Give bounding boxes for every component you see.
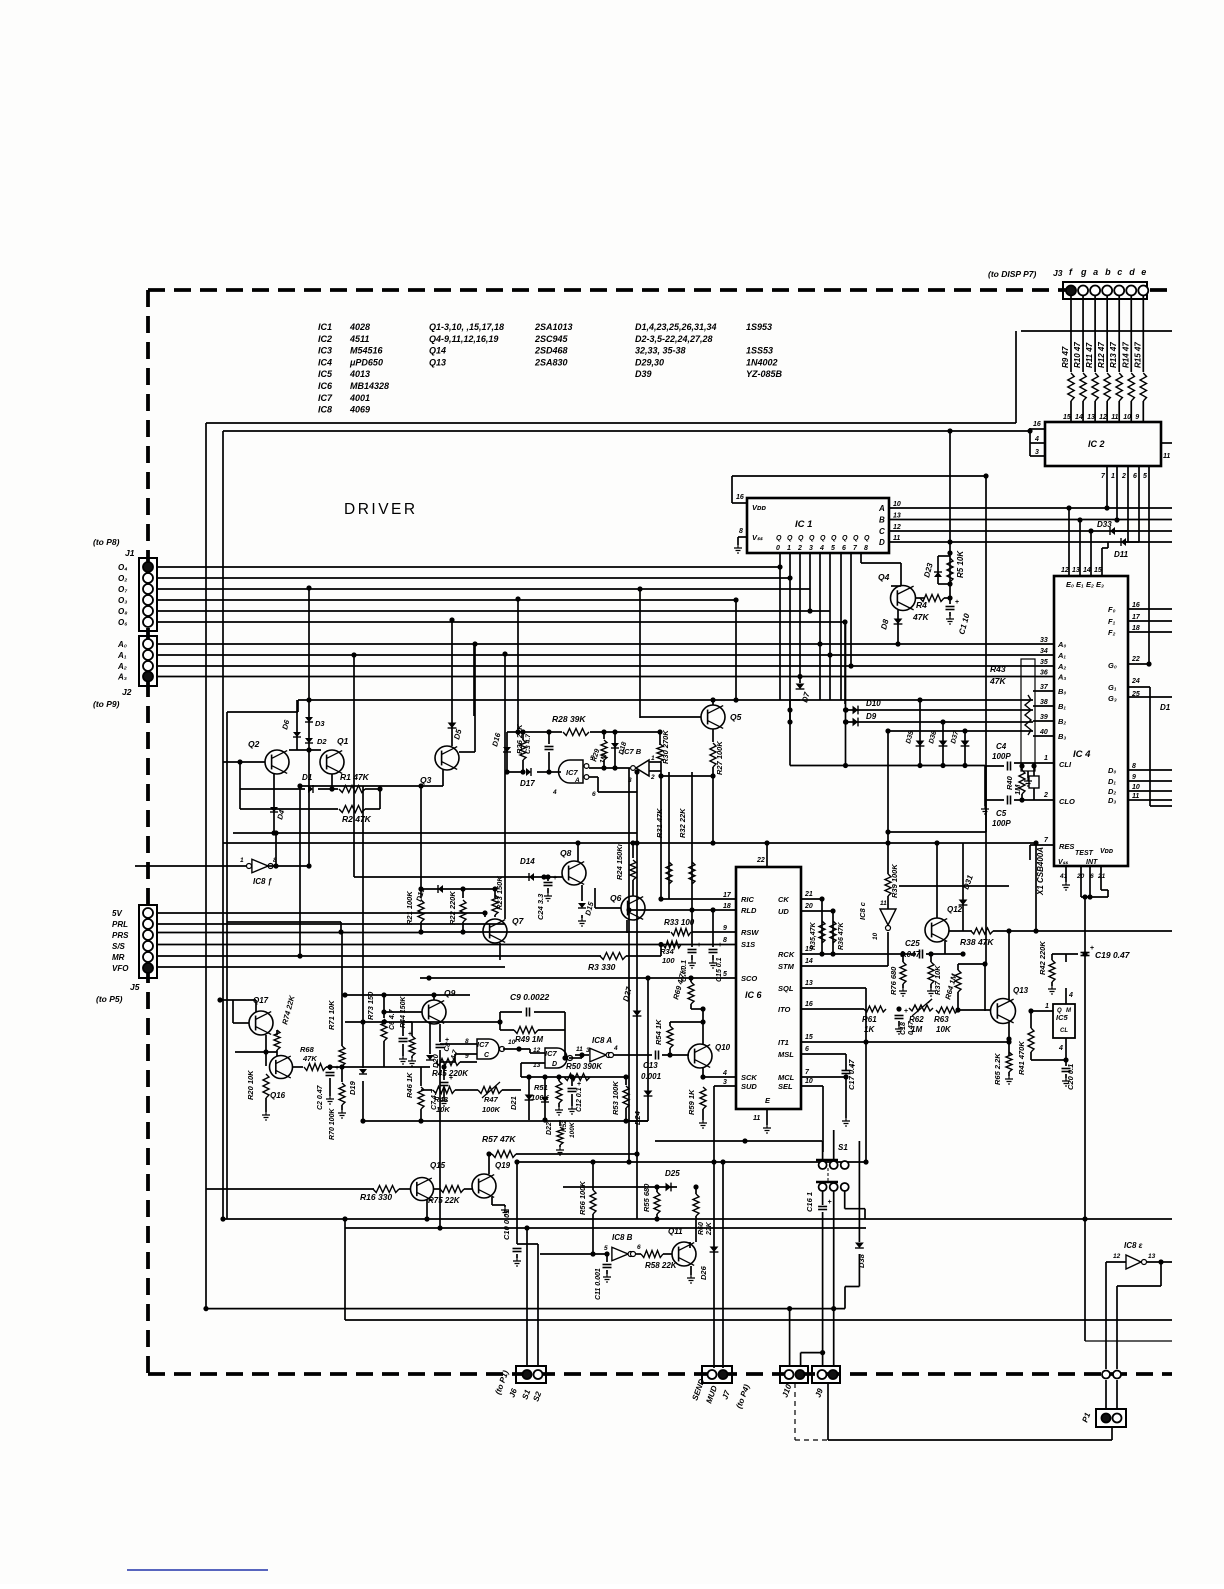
wire bus O₄ (157, 566, 780, 568)
resistor R65 2.2K (1006, 1052, 1012, 1072)
wire Q5 base left (640, 716, 701, 718)
diode D3 (308, 700, 310, 866)
resistor R53 100K (623, 1074, 628, 1079)
svg-text:R33 100: R33 100 (664, 918, 695, 927)
wire bus y703 (298, 699, 1033, 701)
svg-text:14: 14 (1075, 414, 1083, 421)
svg-text:1S953: 1S953 (746, 322, 772, 332)
wire IC1 pin Q3 down (809, 553, 811, 611)
wire x661 down to RIC (660, 776, 662, 899)
wire bus inner top (223, 430, 1030, 432)
resistor R1 47K (318, 788, 338, 790)
switch S1 top row (822, 1141, 824, 1161)
svg-text:IC7: IC7 (566, 768, 579, 777)
svg-text:J1: J1 (125, 548, 135, 558)
svg-text:A₁: A₁ (117, 651, 127, 660)
wire Q9 collector (433, 995, 435, 1000)
svg-text:IC8 ε: IC8 ε (1124, 1241, 1143, 1250)
wire bus y1320 (345, 1319, 1172, 1321)
svg-text:2SC945: 2SC945 (534, 334, 569, 344)
ground C5 (984, 800, 986, 806)
svg-text:M: M (1066, 1008, 1072, 1014)
op-amp IC6 box (736, 867, 801, 1109)
resistor R3 330 (600, 953, 626, 960)
wire diode rail y765 (790, 765, 985, 767)
svg-text:6: 6 (637, 1244, 641, 1251)
wire resistor to IC2 pin 10 (1130, 401, 1132, 422)
svg-text:16: 16 (1033, 421, 1041, 428)
svg-text:G₀: G₀ (1108, 661, 1117, 670)
capacitor C19 0.47 (1081, 952, 1090, 954)
svg-text:13: 13 (1148, 1253, 1156, 1260)
wire IC6 CK to R35 (801, 898, 822, 900)
resistor R62 1M variable (909, 1005, 933, 1011)
svg-text:J10: J10 (780, 1383, 793, 1399)
wire bus x735 vertical (735, 600, 737, 700)
svg-text:O₇: O₇ (118, 585, 128, 594)
inverter IC8E (1106, 1261, 1126, 1263)
svg-text:D₀: D₀ (1108, 766, 1116, 775)
connector J1 pin O₈ (143, 606, 153, 616)
svg-text:R71 10K: R71 10K (327, 1000, 336, 1030)
svg-text:CLO: CLO (1059, 797, 1075, 806)
svg-text:20: 20 (804, 903, 813, 910)
svg-text:B₁: B₁ (1058, 702, 1066, 711)
svg-text:4: 4 (1034, 436, 1039, 443)
wire bus MR (157, 955, 601, 957)
op-amp IC5 box (1053, 1004, 1075, 1038)
resistor R57 47K (489, 1153, 492, 1155)
svg-text:7: 7 (853, 545, 858, 552)
resistor R63 10K (936, 1007, 958, 1013)
svg-text:3: 3 (1035, 449, 1039, 456)
resistor R48 10K (421, 1089, 432, 1091)
connector J3 pin g (1078, 286, 1088, 296)
svg-text:+: + (828, 1199, 832, 1206)
svg-text:SUD: SUD (741, 1082, 757, 1091)
svg-text:(to P5): (to P5) (96, 994, 123, 1004)
svg-text:Vₛₛ: Vₛₛ (1058, 859, 1068, 866)
svg-text:13: 13 (1072, 567, 1080, 574)
svg-text:Vₛₛ: Vₛₛ (752, 533, 764, 542)
svg-text:SCK: SCK (741, 1073, 757, 1082)
wire O6 to D10 (844, 622, 846, 704)
wire y1067 segment (342, 1066, 430, 1068)
svg-text:R35,47K: R35,47K (810, 921, 817, 950)
svg-text:+: + (335, 1065, 339, 1072)
resistor R28 39K (549, 731, 562, 733)
svg-text:C4: C4 (996, 742, 1007, 751)
wire Q9 base (384, 1011, 422, 1013)
wire J9 below to P1 (827, 1383, 829, 1440)
wire IC6 ITO chain R61 C18 R62 R63 to Q13 (801, 1008, 864, 1010)
wire Q13 emitter down R65 (1008, 1022, 1010, 1056)
wire IC8E output (1147, 1261, 1172, 1263)
wire bus VFO (157, 966, 505, 968)
diode D31 (962, 843, 964, 931)
svg-text:R61: R61 (862, 1015, 877, 1024)
svg-text:C13: C13 (643, 1061, 658, 1070)
wire IC6 MCL line (801, 1076, 846, 1078)
svg-text:(to DISP P7): (to DISP P7) (988, 269, 1036, 279)
resistor R58 22K (636, 1253, 641, 1255)
svg-text:R42 220K: R42 220K (1038, 941, 1047, 975)
transistor Q12 (925, 918, 949, 942)
svg-text:A₀: A₀ (117, 640, 127, 649)
diode D9 (853, 718, 859, 727)
svg-text:18: 18 (1132, 625, 1140, 632)
capacitor C25 0.047 (919, 950, 921, 959)
svg-text:R56 100K: R56 100K (578, 1181, 587, 1215)
wire bus outer top (206, 422, 1016, 424)
capacitor C16 1 (822, 1191, 824, 1205)
connector J5 pin MR (143, 952, 153, 962)
svg-text:8: 8 (864, 545, 868, 552)
inverter IC8A (590, 1048, 606, 1062)
wire IC1 pin Q4 down (819, 553, 821, 700)
diode D10 (853, 706, 859, 715)
svg-text:Q: Q (798, 535, 804, 542)
resistor R10 47 (1080, 373, 1086, 401)
svg-text:R15 47: R15 47 (1133, 342, 1142, 368)
wire Q17 base (233, 1022, 249, 1024)
svg-text:STM: STM (778, 962, 795, 971)
wire bus y1022 (345, 1021, 437, 1023)
resistor R76 680 (902, 954, 904, 962)
svg-text:2: 2 (650, 774, 655, 781)
svg-text:R69 4.7K: R69 4.7K (671, 967, 688, 1000)
resistor R20 10K (265, 1052, 267, 1066)
capacitor C7 4.7 (443, 1067, 445, 1080)
wire Q10 emitter to SCK (702, 1068, 704, 1077)
resistor R49 1M (500, 1029, 514, 1031)
wire bus A₃ (157, 676, 1054, 678)
svg-text:9: 9 (1132, 774, 1136, 781)
svg-text:8: 8 (723, 937, 727, 944)
resistor R12 47 (1104, 373, 1110, 401)
svg-text:R5 10K: R5 10K (956, 550, 965, 578)
wire bus y1162 (515, 1161, 866, 1163)
wire SCO line (420, 977, 736, 979)
wire IC7D to IC8A (575, 1054, 589, 1056)
transistor Q5 (701, 705, 725, 729)
wire D14 to Q8 base (544, 876, 562, 878)
svg-text:0.001: 0.001 (641, 1072, 662, 1081)
resistor R27 100K (712, 729, 714, 742)
resistor R38 47K (949, 930, 972, 932)
capacitor C14 0.1 (691, 910, 693, 947)
svg-text:b: b (1105, 267, 1111, 277)
svg-text:24: 24 (1131, 678, 1140, 685)
wire J9 open pin (822, 1353, 824, 1366)
svg-text:Q: Q (864, 535, 870, 542)
svg-text:C9 0.0022: C9 0.0022 (510, 992, 549, 1002)
svg-text:M54516: M54516 (350, 346, 384, 356)
svg-text:R10 47: R10 47 (1073, 342, 1082, 368)
wire O6 column to diode rail (845, 622, 847, 766)
resistor R75 22K (433, 1188, 441, 1190)
wire bus y722 (846, 721, 1033, 723)
svg-text:2SA830: 2SA830 (534, 357, 568, 367)
svg-text:C18: C18 (900, 1022, 907, 1035)
svg-text:Q1-3,10, ,15,17,18: Q1-3,10, ,15,17,18 (429, 322, 504, 332)
resistor R55 680 (654, 1184, 659, 1189)
svg-text:+: + (553, 875, 557, 882)
wire bus x309 vertical (308, 588, 310, 700)
wire IC4 CLI pin 1 (1035, 762, 1054, 764)
svg-text:PRL: PRL (112, 920, 128, 929)
svg-text:SEL: SEL (778, 1082, 793, 1091)
wire IC6 RCK line (801, 953, 916, 955)
svg-text:4013: 4013 (349, 369, 370, 379)
wire node to R27 column (660, 771, 662, 776)
transistor Q7 (483, 919, 507, 943)
wire bus x474 (473, 644, 475, 716)
svg-text:100K: 100K (482, 1105, 501, 1114)
svg-text:C: C (484, 1052, 490, 1059)
svg-text:R75 22K: R75 22K (428, 1196, 461, 1205)
svg-text:R58 22K: R58 22K (645, 1261, 678, 1270)
diode D4 (270, 807, 278, 812)
svg-text:35: 35 (1040, 659, 1048, 666)
transistor Q13 (991, 999, 1016, 1024)
wire y1121 segment (363, 1120, 648, 1122)
wire Q15 emitter down (426, 1200, 428, 1219)
svg-text:IC7: IC7 (477, 1040, 490, 1049)
svg-text:O₄: O₄ (118, 563, 127, 572)
wire IC4 CLO pin 2 (1035, 799, 1054, 801)
wire IC5 pin 4 top (1065, 988, 1067, 1004)
svg-text:O₃: O₃ (118, 596, 127, 605)
diode D16 (506, 732, 508, 772)
wire y1077 R50 line extension (521, 1076, 560, 1078)
wire Q7 emitter (499, 943, 501, 960)
resistor R23 150K (494, 889, 496, 898)
wire J3 pin 6 to resistor (1142, 296, 1144, 372)
svg-text:100P: 100P (992, 819, 1011, 828)
inverter IC8c (880, 909, 896, 925)
svg-text:Q: Q (809, 535, 815, 542)
svg-text:D23: D23 (922, 561, 935, 578)
svg-text:+: + (904, 1008, 908, 1015)
wire bus x342 mid (341, 932, 343, 1000)
svg-text:12: 12 (893, 524, 901, 531)
svg-text:D35: D35 (905, 730, 915, 744)
svg-text:d: d (1129, 267, 1135, 277)
resistor R5 10K (947, 558, 953, 582)
svg-text:1SS53: 1SS53 (746, 346, 773, 356)
wire Q2 emitter down (273, 774, 275, 833)
diode D33 (1110, 527, 1115, 535)
wire IC4 RES pin 7 (1030, 844, 1054, 846)
ground IC1 Vss (737, 537, 739, 545)
svg-text:S2: S2 (531, 1390, 543, 1403)
diode D18 (614, 732, 616, 768)
svg-text:MUD: MUD (704, 1384, 719, 1404)
wire IC1 Vdd pin 16 (732, 502, 747, 504)
svg-text:Q: Q (842, 535, 848, 542)
op-amp IC1 box (747, 498, 889, 553)
diode D7 on IC1 Q2 column (796, 684, 805, 690)
svg-text:R28 39K: R28 39K (552, 714, 586, 724)
svg-text:C10 0.01: C10 0.01 (502, 1210, 511, 1240)
svg-text:CL: CL (1060, 1028, 1068, 1034)
wire IC1 pin Q0 down (779, 553, 781, 700)
svg-text:D2-3,5-22,24,27,28: D2-3,5-22,24,27,28 (635, 334, 713, 344)
svg-text:R48: R48 (434, 1095, 449, 1104)
wire x475 vertical (474, 644, 476, 752)
resistor R2 47K (240, 808, 338, 810)
wire SQL vertical x866 to S1 (863, 1039, 868, 1044)
svg-text:4: 4 (819, 545, 824, 552)
svg-text:36: 36 (1040, 670, 1048, 677)
wire J3 pin 5 to resistor (1130, 296, 1132, 372)
svg-text:E: E (765, 1096, 771, 1105)
svg-text:3: 3 (809, 545, 813, 552)
svg-text:C12 0.1: C12 0.1 (576, 1087, 583, 1112)
svg-text:5: 5 (831, 545, 835, 552)
wire bus y703 left jog (297, 700, 299, 712)
svg-text:Q3: Q3 (420, 775, 432, 785)
svg-text:22: 22 (756, 857, 765, 864)
svg-text:Q1: Q1 (337, 736, 349, 746)
resistor R51 100K (558, 1077, 560, 1081)
ground R43 (1027, 771, 1029, 778)
svg-text:4069: 4069 (349, 405, 370, 415)
svg-text:R59 1K: R59 1K (687, 1089, 696, 1115)
svg-text:6: 6 (805, 1046, 809, 1053)
svg-text:S1: S1 (520, 1388, 532, 1401)
svg-text:R39 100K: R39 100K (890, 864, 899, 898)
inverter IC8B (540, 1253, 607, 1255)
svg-text:R63: R63 (934, 1015, 949, 1024)
svg-text:D₂: D₂ (1108, 787, 1116, 796)
svg-text:4: 4 (1068, 992, 1073, 999)
resistor R34 100 on S1S (663, 941, 681, 948)
svg-text:Q17: Q17 (253, 996, 269, 1005)
wire x300 vertical (299, 786, 301, 956)
svg-text:R16 330: R16 330 (360, 1192, 392, 1202)
svg-text:R43: R43 (990, 664, 1006, 674)
svg-text:R53 100K: R53 100K (611, 1081, 620, 1115)
svg-text:IC7: IC7 (545, 1049, 558, 1058)
crystal X1 (1029, 776, 1039, 788)
wire IC6 IT1 right (801, 1041, 1009, 1043)
svg-text:IC8 c: IC8 c (858, 901, 867, 920)
blue reference underline (127, 1569, 268, 1571)
svg-text:Q8: Q8 (560, 848, 572, 858)
wire SUD down to J7 (714, 1085, 736, 1087)
diode D37 (964, 731, 966, 766)
svg-text:D3: D3 (315, 719, 325, 728)
svg-text:R47: R47 (484, 1095, 499, 1104)
svg-text:1: 1 (787, 545, 791, 552)
svg-text:D39: D39 (635, 369, 652, 379)
resistor R30 270K (659, 732, 661, 745)
svg-text:R4: R4 (916, 600, 927, 610)
resistor R36 47K (830, 921, 836, 943)
svg-text:4: 4 (552, 789, 557, 796)
diode D38 (858, 1141, 860, 1242)
svg-text:47K: 47K (912, 612, 929, 622)
svg-text:1K: 1K (864, 1025, 875, 1034)
svg-text:D16: D16 (490, 731, 502, 747)
svg-text:16: 16 (805, 1001, 813, 1008)
nand IC7A mirrored (559, 760, 584, 783)
svg-text:5V: 5V (112, 909, 122, 918)
svg-text:(to P9): (to P9) (93, 699, 120, 709)
svg-text:10: 10 (1123, 414, 1131, 421)
wire: dashed board boundary bottom (148, 1372, 1172, 1376)
capacitor C5 100P (1007, 796, 1009, 805)
resistor R60 22K (695, 1187, 697, 1194)
svg-text:100: 100 (662, 956, 675, 965)
diode D26 (710, 1247, 719, 1253)
wire IC6 SQL right (801, 987, 866, 989)
connector border pass circles (1102, 1371, 1110, 1379)
transistor Q11 (672, 1242, 696, 1266)
resistor R43 47K (1021, 659, 1035, 771)
svg-text:40: 40 (1039, 729, 1048, 736)
svg-text:12: 12 (1113, 1253, 1121, 1260)
resistor R45 220K (436, 1059, 460, 1066)
svg-text:R27 100K: R27 100K (715, 741, 724, 775)
svg-text:11: 11 (1163, 453, 1170, 460)
svg-text:D8: D8 (879, 618, 890, 631)
resistor R74 22K (274, 1030, 280, 1050)
svg-text:Q4-9,11,12,16,19: Q4-9,11,12,16,19 (429, 334, 498, 344)
svg-text:D15: D15 (583, 900, 595, 916)
svg-text:21: 21 (804, 891, 813, 898)
connector J3 pin b (1102, 286, 1112, 296)
svg-text:+: + (718, 942, 722, 949)
capacitor C15 0.1 (712, 910, 714, 947)
svg-text:R76 680: R76 680 (889, 966, 898, 995)
svg-text:11: 11 (1111, 414, 1118, 421)
resistor R31 47K (668, 772, 670, 899)
inverter IC7B mirrored (636, 760, 649, 776)
svg-text:D10: D10 (866, 699, 881, 708)
wire resistor to IC2 pin 9 (1142, 401, 1144, 422)
connector J9 (812, 1366, 840, 1383)
svg-text:CLI: CLI (1059, 760, 1072, 769)
svg-text:Q13: Q13 (1013, 986, 1029, 995)
capacitor C13 0.001 (614, 1054, 652, 1056)
svg-text:D1: D1 (1160, 703, 1171, 712)
transistor Q19 (472, 1174, 496, 1198)
svg-text:C: C (879, 527, 885, 536)
svg-text:R65 2.2K: R65 2.2K (993, 1053, 1002, 1085)
resistor R11 47 (1092, 373, 1098, 401)
svg-text:Vᴅᴅ: Vᴅᴅ (752, 503, 767, 512)
svg-text:4: 4 (722, 1070, 727, 1077)
wire S1 right contact jog (844, 1191, 846, 1209)
wire rail bottom jog (1085, 1340, 1172, 1342)
svg-text:1: 1 (1044, 755, 1048, 762)
connector J1 pin O₃ (143, 595, 153, 605)
wire bus y710 (846, 709, 1033, 711)
svg-text:R62: R62 (909, 1015, 924, 1024)
svg-text:D: D (552, 1061, 557, 1068)
svg-text:100P: 100P (992, 752, 1011, 761)
svg-text:18: 18 (723, 903, 731, 910)
svg-text:C25: C25 (905, 939, 920, 948)
svg-text:R37 10K: R37 10K (933, 965, 942, 995)
svg-text:15: 15 (1094, 567, 1102, 574)
resistor R26 22K (522, 732, 524, 740)
wire vertical x1036 (1035, 843, 1037, 931)
wire bus A₀ (157, 643, 1054, 645)
